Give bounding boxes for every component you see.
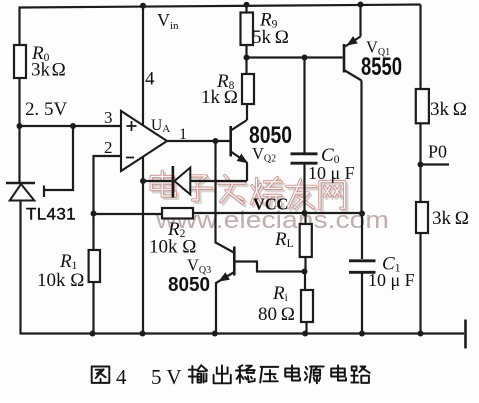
svg-text:8050: 8050 <box>168 274 210 296</box>
svg-text:1: 1 <box>179 126 187 143</box>
svg-text:4: 4 <box>116 365 127 389</box>
svg-text:2. 5V: 2. 5V <box>25 99 68 120</box>
svg-text:3k Ω: 3k Ω <box>31 60 66 81</box>
svg-text:3: 3 <box>104 108 113 127</box>
svg-text:8550: 8550 <box>361 53 402 81</box>
svg-text:P0: P0 <box>428 142 447 162</box>
svg-text:2: 2 <box>104 138 113 157</box>
svg-text:80 Ω: 80 Ω <box>258 304 295 325</box>
svg-text:10k Ω: 10k Ω <box>37 270 84 291</box>
svg-text:5k Ω: 5k Ω <box>252 27 289 48</box>
svg-text:VCC: VCC <box>253 195 288 214</box>
svg-text:1k Ω: 1k Ω <box>201 87 238 108</box>
svg-text:4: 4 <box>145 69 155 90</box>
svg-text:10 μ F: 10 μ F <box>368 270 415 290</box>
svg-text:TL431: TL431 <box>26 205 76 224</box>
svg-text:10k Ω: 10k Ω <box>149 237 196 258</box>
svg-text:3k Ω: 3k Ω <box>432 208 469 229</box>
svg-text:3k Ω: 3k Ω <box>430 99 467 120</box>
svg-text:5 V: 5 V <box>151 365 182 389</box>
svg-text:10 μ F: 10 μ F <box>308 163 355 183</box>
